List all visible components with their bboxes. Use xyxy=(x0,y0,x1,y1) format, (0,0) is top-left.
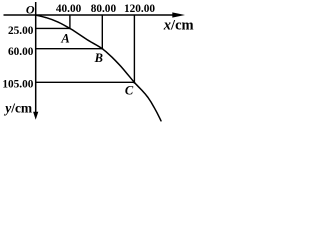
svg-text:60.00: 60.00 xyxy=(8,46,34,58)
svg-text:O: O xyxy=(26,3,35,17)
svg-text:B: B xyxy=(94,51,103,65)
svg-text:25.00: 25.00 xyxy=(8,25,34,37)
svg-text:x/cm: x/cm xyxy=(163,18,194,34)
svg-text:C: C xyxy=(125,83,134,97)
svg-text:40.00: 40.00 xyxy=(56,3,82,15)
svg-text:80.00: 80.00 xyxy=(91,3,117,15)
svg-text:A: A xyxy=(60,31,69,45)
svg-text:y/cm: y/cm xyxy=(3,101,33,116)
svg-text:105.00: 105.00 xyxy=(2,78,33,90)
svg-text:120.00: 120.00 xyxy=(124,3,155,15)
